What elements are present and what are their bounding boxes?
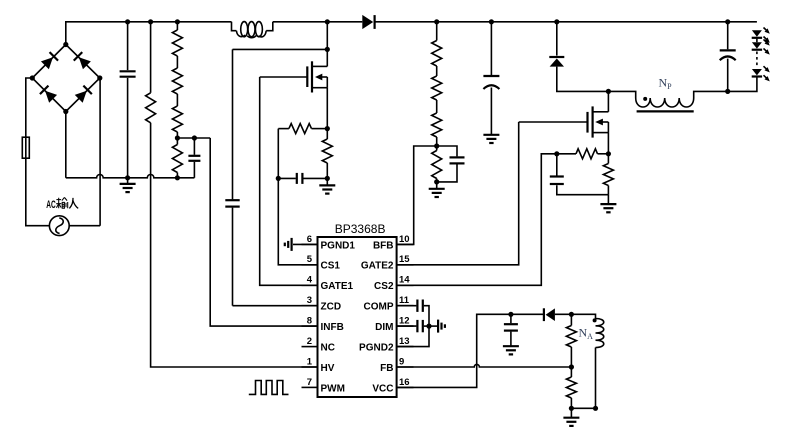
junction xyxy=(175,175,180,180)
pin number 5 xyxy=(307,254,313,265)
svg-text:HV: HV xyxy=(321,363,335,374)
junction xyxy=(125,19,130,24)
polarity dot xyxy=(643,97,647,101)
wire xyxy=(260,76,308,78)
svg-text:AC: AC xyxy=(46,199,56,211)
pin number 12 xyxy=(399,316,410,327)
pin 13 PGND2 stub xyxy=(397,346,414,348)
svg-text:GATE2: GATE2 xyxy=(361,261,394,272)
ground xyxy=(600,195,616,213)
svg-text:6: 6 xyxy=(307,234,312,245)
junction xyxy=(725,19,730,24)
svg-text:13: 13 xyxy=(399,336,410,347)
pin label PWM xyxy=(321,383,345,394)
svg-text:7: 7 xyxy=(307,377,312,388)
capacitor C10 xyxy=(397,320,423,332)
svg-text:16: 16 xyxy=(399,377,410,388)
wire xyxy=(26,158,50,226)
junction xyxy=(325,19,330,24)
svg-text:10: 10 xyxy=(399,234,410,245)
svg-text:PGND1: PGND1 xyxy=(321,240,356,251)
wire xyxy=(556,22,558,56)
wire xyxy=(397,306,429,347)
junction xyxy=(554,151,559,156)
pin 12 DIM stub xyxy=(397,325,414,327)
pin number 2 xyxy=(307,336,312,347)
junction xyxy=(434,143,439,148)
inductor L1 xyxy=(232,22,273,38)
resistor R2 xyxy=(172,22,182,138)
junction xyxy=(508,312,513,317)
svg-text:NC: NC xyxy=(321,343,335,354)
pin label DIM xyxy=(375,322,393,333)
label NP xyxy=(659,76,673,92)
diode D6 xyxy=(544,308,555,321)
pin label FB xyxy=(380,363,393,374)
pin label INFB xyxy=(321,322,344,333)
junction xyxy=(569,406,574,411)
label NA xyxy=(579,326,594,342)
junction xyxy=(175,19,180,24)
ground PGND1 xyxy=(285,238,318,251)
wire xyxy=(557,67,609,92)
capacitor C3 xyxy=(225,49,239,305)
wire xyxy=(397,146,437,244)
pin label VCC xyxy=(372,383,393,394)
wire xyxy=(66,22,232,45)
wire xyxy=(397,154,557,285)
svg-text:14: 14 xyxy=(399,275,410,286)
pin 14 CS2 stub xyxy=(397,284,414,286)
pin label COMP xyxy=(364,302,394,313)
svg-text:12: 12 xyxy=(399,316,410,327)
pin number 14 xyxy=(399,275,410,286)
pin number 16 xyxy=(399,377,410,388)
capacitor C6 xyxy=(483,22,499,135)
svg-text:8: 8 xyxy=(307,316,312,327)
wire xyxy=(595,348,597,409)
pin number 6 xyxy=(307,234,312,245)
pin 16 VCC stub xyxy=(397,386,414,388)
wire xyxy=(375,21,757,23)
wire xyxy=(756,39,758,43)
junction xyxy=(325,176,330,181)
junction xyxy=(175,135,180,140)
label AC输入 xyxy=(46,197,78,211)
pin label HV xyxy=(321,363,335,374)
junction xyxy=(606,151,611,156)
bridge rectifier BR1 xyxy=(30,42,103,114)
pin 2 NC stub xyxy=(302,346,318,348)
pin label GATE1 xyxy=(321,281,354,292)
svg-text:GATE1: GATE1 xyxy=(321,281,354,292)
svg-text:PWM: PWM xyxy=(321,383,345,394)
pin number 8 xyxy=(307,316,312,327)
capacitor C9 xyxy=(397,300,423,312)
resistor R5 xyxy=(322,129,332,179)
pin 4 GATE1 stub xyxy=(302,284,318,286)
svg-text:DIM: DIM xyxy=(375,322,393,333)
pin number 13 xyxy=(399,336,410,347)
junction xyxy=(434,179,439,184)
transistor Q1 xyxy=(307,61,327,92)
wire xyxy=(424,325,438,327)
ground xyxy=(503,346,519,355)
capacitor C1 xyxy=(120,22,136,178)
junction xyxy=(148,19,153,24)
pin 3 ZCD stub xyxy=(302,305,318,307)
wire xyxy=(99,78,101,226)
pin 7 PWM stub xyxy=(302,386,318,388)
junction xyxy=(434,19,439,24)
LED D3 xyxy=(752,28,770,43)
pin number 7 xyxy=(307,377,312,388)
svg-text:2: 2 xyxy=(307,336,312,347)
pin number 4 xyxy=(307,275,313,286)
junction xyxy=(276,176,281,181)
pin 5 CS1 stub xyxy=(302,264,318,266)
wire xyxy=(397,364,572,367)
fuse F1 xyxy=(22,137,29,158)
wire xyxy=(326,22,328,67)
pin label NC xyxy=(321,343,335,354)
wire xyxy=(177,137,210,139)
pin label CS1 xyxy=(321,261,341,272)
svg-text:CS1: CS1 xyxy=(321,261,341,272)
label BP3368B xyxy=(335,222,386,236)
wire xyxy=(26,78,33,137)
wire xyxy=(151,123,318,367)
wire xyxy=(728,77,757,91)
svg-text:15: 15 xyxy=(399,254,410,265)
pin label PGND1 xyxy=(321,240,356,251)
junction xyxy=(125,175,130,180)
svg-text:INFB: INFB xyxy=(321,322,344,333)
pin label ZCD xyxy=(321,302,342,313)
capacitor C11 xyxy=(504,314,518,346)
resistor R9 xyxy=(603,154,613,195)
wire xyxy=(756,52,758,68)
capacitor C7 xyxy=(720,22,736,92)
junction xyxy=(554,19,559,24)
pin 15 GATE2 stub xyxy=(397,264,414,266)
svg-text:VCC: VCC xyxy=(372,383,393,394)
svg-text:COMP: COMP xyxy=(364,302,394,313)
junction xyxy=(489,19,494,24)
junction xyxy=(426,324,431,329)
svg-text:3: 3 xyxy=(307,295,312,306)
junction xyxy=(606,89,611,94)
wire xyxy=(397,314,544,387)
core xyxy=(637,110,694,112)
wire xyxy=(69,225,100,227)
capacitor C8 xyxy=(550,154,609,195)
pin 11 COMP stub xyxy=(397,305,414,307)
wire xyxy=(326,88,328,129)
svg-text:CS2: CS2 xyxy=(374,281,394,292)
wire xyxy=(397,122,519,265)
diode D2 xyxy=(549,57,564,67)
pin number 9 xyxy=(399,356,404,367)
diode D1 xyxy=(362,15,374,29)
ground xyxy=(563,408,579,426)
ground xyxy=(120,178,136,192)
capacitor C4 xyxy=(278,173,327,184)
wire xyxy=(65,112,67,178)
pin number 3 xyxy=(307,295,312,306)
pin label PGND2 xyxy=(359,343,394,354)
wire xyxy=(607,133,609,154)
wire xyxy=(210,138,317,326)
svg-text:9: 9 xyxy=(399,356,404,367)
pin number 1 xyxy=(307,356,313,367)
junction xyxy=(192,135,197,140)
svg-text:PGND2: PGND2 xyxy=(359,343,394,354)
junction xyxy=(325,126,330,131)
pin 10 BFB stub xyxy=(397,243,414,245)
junction xyxy=(569,312,574,317)
transistor Q2 xyxy=(588,106,609,137)
wire xyxy=(571,407,595,409)
winding NP xyxy=(608,91,727,107)
LED D4 xyxy=(752,39,770,54)
polarity dot xyxy=(593,318,597,322)
resistor R8 xyxy=(557,149,609,159)
pin 8 INFB stub xyxy=(302,325,318,327)
wire xyxy=(519,121,588,123)
ground xyxy=(319,178,335,193)
wire xyxy=(233,305,318,307)
svg-text:BFB: BFB xyxy=(373,240,394,251)
resistor R7 xyxy=(432,146,442,182)
resistor R11 xyxy=(566,367,576,408)
resistor R3 xyxy=(172,138,182,178)
svg-text:1: 1 xyxy=(307,356,313,367)
wire xyxy=(233,48,328,50)
wire xyxy=(66,175,195,178)
wire xyxy=(607,91,609,111)
pin label CS2 xyxy=(374,281,394,292)
ground xyxy=(429,182,445,197)
junction xyxy=(725,89,730,94)
pin 9 FB stub xyxy=(397,366,414,368)
pin label GATE2 xyxy=(361,261,394,272)
junction xyxy=(593,406,598,411)
LED D5 xyxy=(752,66,770,81)
capacitor C5 xyxy=(437,146,465,182)
ground xyxy=(483,134,499,143)
pin number 10 xyxy=(399,234,410,245)
pin label BFB xyxy=(373,240,394,251)
winding NA xyxy=(596,319,604,348)
svg-text:11: 11 xyxy=(399,295,410,306)
capacitor C2 xyxy=(188,138,200,178)
svg-text:ZCD: ZCD xyxy=(321,302,342,313)
svg-text:FB: FB xyxy=(380,363,393,374)
PWM pulse signal xyxy=(249,381,289,395)
op-amp U1 box xyxy=(318,237,397,397)
pin 1 HV stub xyxy=(302,366,318,368)
wire xyxy=(260,77,318,285)
wire xyxy=(273,21,363,23)
pin 6 PGND1 stub xyxy=(302,243,318,245)
AC source xyxy=(49,216,69,236)
svg-text:5: 5 xyxy=(307,254,313,265)
junction xyxy=(569,364,574,369)
junction xyxy=(325,47,330,52)
resistor R10 xyxy=(566,314,576,367)
resistor R1 xyxy=(146,22,156,123)
svg-text:BP3368B: BP3368B xyxy=(335,222,386,236)
pin number 11 xyxy=(399,295,410,306)
pin number 15 xyxy=(399,254,410,265)
wire xyxy=(278,129,317,265)
resistor R6 xyxy=(432,22,442,146)
wire xyxy=(555,314,596,318)
svg-text:4: 4 xyxy=(307,275,313,286)
ground DIM xyxy=(438,320,445,333)
resistor R4 xyxy=(278,124,327,134)
